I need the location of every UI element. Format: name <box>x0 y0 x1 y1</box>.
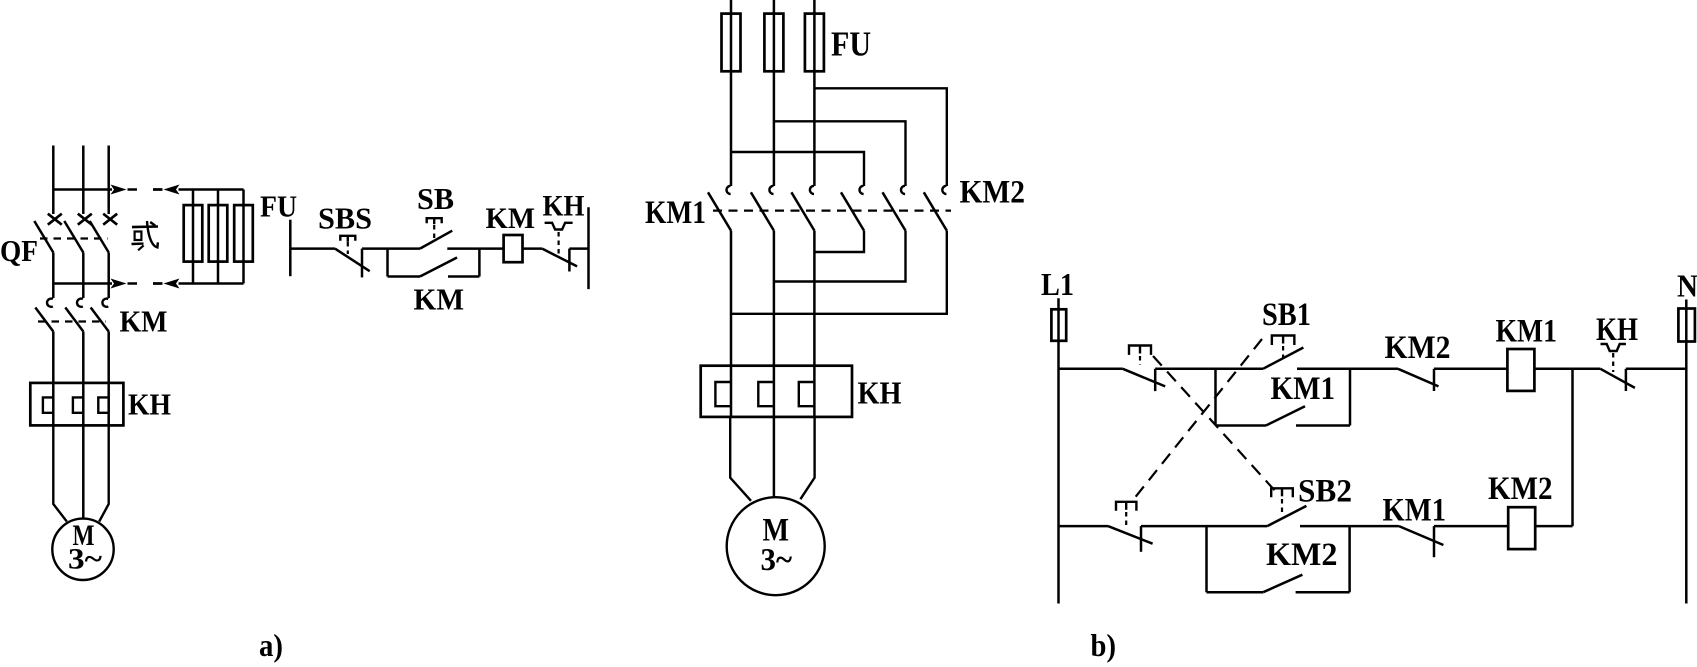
SB1 block right vertical <box>1349 369 1352 426</box>
svg-text:KM1: KM1 <box>645 195 706 231</box>
wire to KM2 coil <box>1434 525 1508 528</box>
svg-text:N: N <box>1677 268 1697 304</box>
lower equivalence bus with right arrow <box>53 282 112 285</box>
wire SB1 to block right <box>1297 368 1350 371</box>
wire to SB contact <box>388 247 421 250</box>
svg-text:KM1: KM1 <box>1496 314 1558 350</box>
svg-text:KM: KM <box>120 304 168 339</box>
thermal contact KH (NC) <box>542 249 577 267</box>
upper left-pointing arrow toward FU <box>153 188 162 191</box>
svg-text:KH: KH <box>128 387 171 422</box>
wire to SB1 contact <box>1216 368 1264 371</box>
svg-text:3~: 3~ <box>761 541 793 577</box>
KM1 holding contact blade <box>1266 406 1305 425</box>
wire to KM1 NC contact <box>1350 525 1399 528</box>
start button SB1 (NO) blade <box>1263 348 1303 369</box>
svg-text:a): a) <box>259 627 283 663</box>
fuse FU element 1 (middle) <box>722 14 741 72</box>
fuse on L1 <box>1051 309 1066 341</box>
KH heater element 3 <box>98 397 108 412</box>
KH heater element 2 (middle) <box>758 382 773 406</box>
fuse FU element 1 <box>192 190 195 284</box>
svg-text:KH: KH <box>858 375 902 411</box>
breaker QF pole 1 blade <box>34 221 53 253</box>
thermal contact KH (NC, b) <box>1600 369 1635 388</box>
wire rail to SBS <box>290 247 335 250</box>
wire to SB1 block <box>1155 368 1215 371</box>
KH operator (b) <box>1601 344 1626 351</box>
svg-text:KM2: KM2 <box>1385 330 1451 366</box>
breaker QF pole 3 blade <box>90 221 109 253</box>
breaker QF linkage dashed line <box>40 237 108 239</box>
svg-text:KM1: KM1 <box>1383 493 1447 529</box>
KH heater element 2 <box>73 397 83 412</box>
svg-text:KM2: KM2 <box>1266 537 1338 573</box>
contactor KM2 pole 5 <box>901 186 905 194</box>
KM2 pole6 return wire <box>731 231 947 314</box>
KM2 holding contact blade <box>1263 575 1302 593</box>
fuse FU element 2 <box>217 190 220 284</box>
control left rail from FU <box>289 220 292 277</box>
SBS operator <box>340 236 355 241</box>
svg-text:KM1: KM1 <box>1271 371 1336 407</box>
KM2 holding contact bottom-left rail <box>1207 591 1264 594</box>
SB2 NC contact (top rung) <box>1123 369 1165 387</box>
KH heater element 1 <box>43 397 53 412</box>
SB2 operator <box>1271 488 1293 497</box>
svg-text:KH: KH <box>543 190 585 223</box>
fuse on N <box>1678 309 1695 342</box>
thermal relay KH box (middle) <box>701 366 852 417</box>
start button SB2 (NO) blade <box>1267 506 1306 526</box>
crossover wire phase1 to KM2 pole4 <box>731 152 864 186</box>
supply line L3 (middle) <box>813 0 816 186</box>
contactor KM main contact pole 1 <box>47 299 53 307</box>
svg-text:L1: L1 <box>1041 266 1074 302</box>
fuse group FU bottom rail <box>179 282 244 285</box>
fuse FU element 3 (middle) <box>805 14 824 72</box>
wire to KM2 NC contact <box>1350 368 1398 371</box>
wire KM1 coil to KH <box>1534 368 1600 371</box>
junction vertical to KM2 rung <box>1571 369 1574 526</box>
wire phase 1 KM to KH <box>52 332 55 426</box>
KM2 pole4 return wire <box>814 231 864 252</box>
fuse group FU top rail <box>179 188 244 191</box>
wire to SB2 contact <box>1207 525 1268 528</box>
wire phase 3 KM to KH <box>107 332 110 426</box>
KM2 interlock contact (NC) <box>1398 369 1439 387</box>
SB1 operator <box>1272 336 1295 346</box>
motor lead 1 (middle) <box>730 417 751 501</box>
crossover wire phase2 to KM2 pole5 <box>774 121 906 186</box>
contactor coil KM1 <box>1507 349 1534 391</box>
svg-text:SB1: SB1 <box>1262 297 1311 333</box>
svg-text:SBS: SBS <box>318 201 372 236</box>
parallel block left vertical <box>386 249 389 277</box>
wire to SB2 block <box>1141 525 1207 528</box>
breaker QF pole 1 cross mark <box>48 214 62 225</box>
fuse FU element 3 <box>242 190 245 284</box>
KM1 interlock contact (NC) <box>1399 526 1444 545</box>
wire SB2 to block right <box>1300 525 1350 528</box>
supply line L1 (middle) <box>730 0 733 186</box>
motor feeder 3 (middle) <box>813 231 816 417</box>
wire SBS to parallel block <box>362 247 388 250</box>
contactor KM1 pole 3 <box>810 186 814 194</box>
svg-text:FU: FU <box>831 25 871 64</box>
rail N <box>1685 300 1688 604</box>
wire to KM1 coil <box>1434 368 1507 371</box>
wire phase 2 QF to KM <box>82 253 85 299</box>
svg-text:KM2: KM2 <box>1488 471 1553 507</box>
svg-text:SB: SB <box>417 181 454 216</box>
rail L1 <box>1057 298 1060 603</box>
breaker QF pole 2 blade <box>64 221 83 253</box>
KH heater element 1 (middle) <box>715 382 730 406</box>
svg-text:KM2: KM2 <box>960 175 1026 211</box>
svg-text:KM: KM <box>486 202 536 235</box>
contactor coil KM2 <box>1508 507 1535 549</box>
KM2 pole5 return wire <box>774 231 906 282</box>
motor lead 1 (a) <box>53 425 67 521</box>
three-phase supply lines (circuit a) <box>52 146 55 215</box>
breaker QF pole 2 cross mark <box>78 214 92 225</box>
contactor KM1 pole 2 <box>769 186 773 194</box>
SB1 NC operator <box>1116 502 1136 511</box>
KH operator <box>545 223 573 230</box>
breaker QF pole 3 cross mark <box>103 214 117 225</box>
KM1 holding contact bottom-left rail <box>1216 424 1267 427</box>
motor lead 2 (middle) <box>773 417 776 497</box>
control right rail <box>587 207 590 289</box>
SB2 block left vertical <box>1205 526 1208 592</box>
wire phase 3 QF to KM <box>107 253 110 299</box>
contactor KM main contact pole 3 <box>102 299 108 307</box>
wire KM2 coil to junction <box>1535 525 1572 528</box>
motor M 3~ (middle) <box>727 497 825 595</box>
wire KH to N <box>1626 368 1686 371</box>
mechanical link dashed diagonal SB1-SB1nc <box>1133 339 1262 500</box>
thermal relay KH box <box>30 383 123 426</box>
SB2 block right vertical <box>1348 526 1351 592</box>
motor lead 3 (a) <box>99 425 109 521</box>
contactor KM linkage dashed line <box>38 320 106 322</box>
svg-text:KM: KM <box>414 282 465 317</box>
motor M 3~ (circuit a) <box>52 519 113 580</box>
svg-text:b): b) <box>1091 627 1117 663</box>
svg-text:3~: 3~ <box>68 543 102 576</box>
contactor KM2 pole 4 <box>859 186 863 194</box>
upper equivalence bus with right arrow <box>53 188 112 191</box>
start button SB (NO) blade <box>420 231 452 249</box>
contactor coil KM <box>504 235 523 262</box>
wire L1 to SB2 NC contact <box>1059 368 1123 371</box>
wire KH to right rail <box>569 247 588 250</box>
SB operator <box>427 218 442 223</box>
mechanical link dashed diagonal SB2nc-SB2 <box>1153 356 1277 493</box>
fuse FU element 2 (middle) <box>764 14 783 72</box>
wire phase 2 KM to KH <box>82 332 85 426</box>
motor feeder 1 (middle) <box>730 231 733 417</box>
stop button SBS (NC) <box>335 249 370 272</box>
contactor KM main contact pole 2 <box>77 299 83 307</box>
contactor KM1 pole 1 <box>726 186 730 194</box>
wire coil to KH contact <box>523 247 543 250</box>
motor lead 3 (middle) <box>800 417 814 499</box>
KM2 holding contact bottom-right rail <box>1296 591 1350 594</box>
svg-text:FU: FU <box>260 189 297 224</box>
contactor KM2 pole 6 <box>942 186 946 194</box>
svg-text:QF: QF <box>0 233 38 268</box>
SB1 NC contact (bottom rung) <box>1108 526 1153 544</box>
parallel block right vertical <box>478 249 481 277</box>
lower left-pointing arrow toward FU <box>153 282 162 285</box>
KM auxiliary contact blade <box>420 258 457 277</box>
SB1 block left vertical <box>1214 369 1217 426</box>
KM auxiliary branch bottom-right rail <box>448 275 479 278</box>
SB2 NC operator <box>1129 346 1151 355</box>
motor lead 2 (a) <box>82 425 85 518</box>
svg-text:KH: KH <box>1596 312 1638 348</box>
KM1 holding contact bottom-right rail <box>1296 424 1350 427</box>
KH heater element 3 (middle) <box>799 382 814 406</box>
crossover wire phase3 to KM2 pole6 <box>814 88 946 186</box>
motor feeder 2 (middle) <box>773 231 776 417</box>
wire block to coil <box>479 247 503 250</box>
supply line L2 (middle) <box>773 0 776 186</box>
KM auxiliary contact branch bottom-left rail <box>388 275 421 278</box>
wire L1 to SB1 NC contact <box>1059 525 1109 528</box>
svg-text:SB2: SB2 <box>1298 474 1352 510</box>
KM1-KM2 linkage dashed line <box>713 210 951 212</box>
wire phase 1 QF to KM <box>52 253 55 299</box>
wire SB to right vertical <box>447 247 479 250</box>
label OR (Chinese huo) <box>132 225 158 228</box>
